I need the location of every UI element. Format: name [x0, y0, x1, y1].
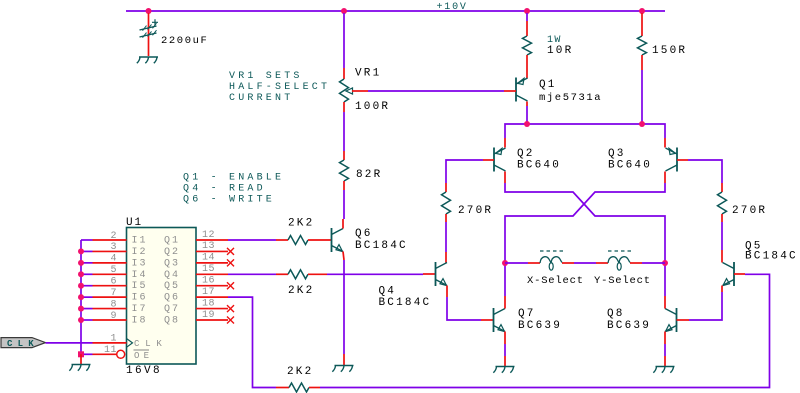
- svg-text:2K2: 2K2: [288, 218, 314, 230]
- ground (Q6): [332, 366, 353, 372]
- svg-text:CURRENT: CURRENT: [229, 93, 293, 104]
- resistor 82R: [340, 160, 349, 181]
- svg-text:BC639: BC639: [607, 320, 651, 332]
- node bus I8: [78, 317, 84, 323]
- U1 OE inverter bubble: [117, 350, 125, 358]
- annotation VR1 SETS HALF-SELECT CURRENT: [229, 71, 330, 104]
- pin 270R-left top: [445, 183, 447, 192]
- port CLK: [1, 338, 46, 349]
- svg-text:mje5731a: mje5731a: [539, 92, 602, 104]
- wire Q7 emitter to ground: [504, 344, 506, 356]
- pin Q7 collector: [504, 296, 506, 309]
- resistor 2k2 (WRITE): [289, 383, 309, 392]
- svg-text:100R: 100R: [355, 101, 390, 113]
- svg-text:VR1: VR1: [355, 68, 381, 80]
- node Y-Select right junction: [662, 260, 668, 266]
- transistor Q8 BC639: [665, 308, 677, 332]
- svg-text:I2: I2: [132, 247, 148, 258]
- svg-text:+10V: +10V: [437, 2, 468, 13]
- svg-text:Q1: Q1: [539, 79, 557, 91]
- wire Q1 collector to Q2/Q3 rail: [526, 106, 528, 124]
- wire Q2/Q3 emitter rail: [505, 124, 665, 138]
- pin Q5 collector: [721, 250, 723, 263]
- wire +10V power rail: [126, 10, 665, 12]
- svg-text:16V8: 16V8: [126, 365, 162, 377]
- wire rail to 10R: [526, 13, 528, 21]
- wire CLK port to U1 pin1: [46, 342, 93, 344]
- pin Q4 base: [423, 273, 436, 275]
- svg-text:VR1 SETS: VR1 SETS: [229, 71, 303, 82]
- svg-text:CLK: CLK: [134, 339, 168, 349]
- resistor 2k2 (ENABLE): [288, 236, 308, 245]
- svg-text:Q2: Q2: [164, 247, 180, 258]
- pin 150R bottom: [641, 55, 643, 70]
- U1 CLK/OE pin names: [134, 339, 168, 361]
- wire Y-Select to junction: [642, 262, 665, 264]
- svg-text:CLK: CLK: [7, 339, 39, 349]
- svg-text:X-Select: X-Select: [527, 275, 584, 287]
- wire 2k2 to Q4 base: [327, 273, 423, 275]
- svg-text:Q8: Q8: [607, 308, 625, 320]
- pin 82R bottom: [343, 181, 345, 190]
- svg-text:I3: I3: [132, 258, 148, 269]
- pin Q4 collector: [445, 252, 447, 263]
- ground (input bus): [69, 365, 90, 371]
- svg-text:Q3: Q3: [164, 258, 180, 269]
- transistor Q7 BC639: [494, 308, 506, 332]
- node bus I5: [78, 283, 84, 289]
- pin Q5 base: [734, 273, 745, 275]
- pin 150R top: [641, 13, 643, 36]
- resistor 270R (left): [442, 192, 451, 214]
- svg-text:I5: I5: [132, 281, 148, 292]
- svg-text:BC639: BC639: [518, 320, 562, 332]
- pin Q1 collector: [526, 102, 528, 107]
- transistor Q4 BC184C: [436, 262, 448, 286]
- pin VR1 wiper: [352, 90, 368, 92]
- no-connect X pin 16: [227, 282, 234, 289]
- transistor Q6 BC184C: [332, 228, 344, 252]
- resistor 10R 1W: [523, 36, 532, 55]
- U1 output pins (right): [196, 240, 228, 320]
- pin Q1 base: [504, 90, 516, 92]
- wire 150R to Q2/Q3 rail: [641, 70, 643, 124]
- wire pin17 down to bottom rail: [228, 297, 276, 387]
- node rail-VR1 junction: [341, 8, 347, 14]
- pin Y-Select right: [630, 262, 642, 264]
- ground (Q7): [493, 367, 514, 373]
- pin Q5 emitter: [721, 286, 723, 293]
- wire 270R-left to Q4 collector: [445, 222, 447, 252]
- resistor 270R (right): [718, 192, 727, 214]
- svg-text:Y-Select: Y-Select: [594, 275, 651, 287]
- pin Q3 collector: [664, 172, 666, 184]
- wire pin15 to 2k2: [228, 273, 276, 275]
- transistor Q2 BC640: [494, 148, 506, 172]
- U1 input pin names I1-I8: [132, 236, 148, 327]
- svg-text:BC184C: BC184C: [745, 251, 798, 263]
- no-connect X pin 18: [227, 305, 234, 312]
- pin Q4 emitter: [446, 286, 448, 298]
- svg-text:2200uF: 2200uF: [161, 35, 208, 47]
- svg-text:2K2: 2K2: [288, 285, 314, 297]
- wire crossover Q2-collector to Y-side: [505, 183, 665, 296]
- svg-text:270R: 270R: [458, 205, 493, 217]
- node bus I7: [78, 306, 84, 312]
- wire input bus: [81, 240, 93, 354]
- pin 82R top: [343, 151, 345, 160]
- node 150R-rail junction: [639, 121, 645, 127]
- no-connect X pin 19: [227, 317, 234, 324]
- pin Q8 emitter: [664, 332, 666, 345]
- pin Q6 emitter: [343, 252, 344, 261]
- svg-text:I1: I1: [132, 236, 148, 247]
- node bus I2: [78, 248, 84, 254]
- transistor Q3 BC640: [666, 148, 678, 172]
- svg-text:Q1: Q1: [164, 236, 180, 247]
- wire VR1 wiper to Q1 base: [368, 90, 504, 92]
- node Q1-rail junction: [524, 121, 530, 127]
- wire 270R-right to Q5 collector: [721, 222, 723, 250]
- pin VR1 top: [343, 68, 345, 79]
- transistor Q1 mje5731a: [516, 78, 528, 102]
- wire Q8 base to Q5 emitter: [689, 292, 722, 320]
- svg-text:HALF-SELECT: HALF-SELECT: [229, 82, 330, 93]
- pin Q3 emitter: [664, 138, 666, 148]
- capacitor C1 2200uF: [140, 13, 159, 56]
- pin Y-Select left: [596, 262, 608, 264]
- svg-text:Q1 - ENABLE: Q1 - ENABLE: [183, 173, 284, 184]
- svg-text:Q4 - READ: Q4 - READ: [183, 184, 266, 195]
- wire Q4 emitter to Q7 base: [447, 297, 481, 320]
- svg-text:82R: 82R: [356, 169, 382, 181]
- pin X-Select left: [528, 262, 540, 264]
- U1 right pin numbers 12-19: [202, 230, 215, 321]
- pin Q8 base: [677, 319, 690, 321]
- inductor X-Select: [540, 251, 563, 270]
- svg-text:Q4: Q4: [379, 286, 397, 298]
- pin VR1 bottom: [343, 102, 345, 112]
- pin 270R-left bottom: [445, 214, 447, 222]
- resistor 2k2 (READ): [288, 270, 308, 279]
- svg-text:10R: 10R: [547, 45, 573, 57]
- wire between inductors: [574, 262, 596, 264]
- svg-text:BC184C: BC184C: [379, 297, 432, 309]
- pin Q8 collector: [664, 296, 666, 309]
- wire crossover Q3-collector to X-side: [505, 183, 665, 296]
- resistor 150R: [638, 36, 647, 55]
- node rail-C1 junction: [146, 8, 152, 14]
- pin Q7 base: [481, 319, 494, 321]
- no-connect X pin 13: [227, 248, 234, 255]
- node X-Select left junction: [502, 260, 508, 266]
- pin 2k2-mid left: [276, 273, 288, 275]
- wire Q3 base to 270R right: [688, 160, 722, 183]
- pin Q6 collector: [342, 219, 344, 229]
- svg-text:BC640: BC640: [608, 160, 652, 172]
- pin X-Select right: [562, 262, 574, 264]
- pin 270R-right bottom: [721, 214, 723, 222]
- node bus OE (square): [78, 351, 84, 357]
- svg-text:Q2: Q2: [517, 148, 535, 160]
- svg-text:OE: OE: [134, 351, 153, 361]
- svg-text:Q6 - WRITE: Q6 - WRITE: [183, 195, 275, 206]
- svg-text:Q6: Q6: [355, 228, 373, 240]
- wire bottom rail to Q5 base: [320, 274, 770, 387]
- U1 input pins (left): [93, 240, 127, 354]
- svg-text:I7: I7: [132, 304, 148, 315]
- IC U1 16V8: [127, 228, 197, 365]
- svg-text:I6: I6: [132, 293, 148, 304]
- svg-text:Q6: Q6: [164, 293, 180, 304]
- svg-text:BC640: BC640: [517, 160, 561, 172]
- wire Q8 emitter to ground: [664, 344, 666, 356]
- annotation Q1=ENABLE Q4=READ Q6=WRITE: [183, 173, 284, 206]
- pin 10R bottom / Q1 emitter: [526, 55, 528, 79]
- wire Q2 base to 270R left: [446, 160, 483, 183]
- svg-text:2K2: 2K2: [287, 366, 313, 378]
- svg-text:150R: 150R: [652, 45, 687, 57]
- pin Q2 collector: [504, 172, 506, 184]
- svg-text:Q3: Q3: [608, 148, 626, 160]
- pin 2k2-top right / Q6 base: [308, 239, 332, 241]
- svg-text:Q5: Q5: [164, 281, 180, 292]
- U1 left pin numbers 2-9: [110, 231, 117, 322]
- pin Q6 ground: [343, 354, 345, 366]
- svg-text:I8: I8: [132, 316, 148, 327]
- potentiometer VR1 100R: [340, 79, 353, 102]
- wire pin12 to 2k2: [228, 239, 276, 241]
- ground (Q8): [653, 367, 674, 373]
- transistor Q5 BC184C: [723, 262, 735, 286]
- pin 270R-right top: [721, 183, 723, 192]
- pin bus to ground: [80, 354, 82, 364]
- pin 2k2-top left: [276, 239, 288, 241]
- pin Q2 emitter: [504, 138, 506, 148]
- ground (below C1): [137, 57, 158, 63]
- node bus I3: [78, 260, 84, 266]
- svg-text:270R: 270R: [732, 205, 767, 217]
- inductor Y-Select: [608, 251, 631, 270]
- node rail-10R junction: [524, 8, 530, 14]
- wire X-Select left: [505, 262, 528, 264]
- no-connect X pin 14: [227, 259, 234, 266]
- pin Q7 ground: [504, 356, 506, 367]
- wire 82R to Q6 collector: [343, 190, 345, 219]
- pin Q3 base: [677, 159, 688, 161]
- pin Q2 base: [483, 159, 494, 161]
- svg-text:BC184C: BC184C: [355, 240, 408, 252]
- svg-text:U1: U1: [126, 217, 143, 229]
- pin 2k2-bottom right: [309, 387, 320, 389]
- svg-text:Q4: Q4: [164, 270, 180, 281]
- svg-text:I4: I4: [132, 270, 148, 281]
- U1 output pin names Q1-Q8: [164, 236, 180, 327]
- pin 2k2-bottom left: [276, 387, 289, 389]
- node bus I6: [78, 294, 84, 300]
- wire rail to VR1: [343, 13, 345, 68]
- pin Q7 emitter: [504, 332, 506, 345]
- pin 2k2-mid right: [308, 273, 327, 275]
- node rail-150R junction: [639, 8, 645, 14]
- svg-text:Q7: Q7: [164, 304, 180, 315]
- node bus I4: [78, 271, 84, 277]
- svg-text:Q8: Q8: [164, 316, 180, 327]
- pin Q8 ground: [664, 356, 666, 367]
- wire VR1 to 82R: [343, 112, 345, 151]
- pin 10R top: [526, 21, 528, 36]
- svg-text:Q7: Q7: [518, 308, 536, 320]
- wire Q6 emitter to ground: [343, 260, 345, 354]
